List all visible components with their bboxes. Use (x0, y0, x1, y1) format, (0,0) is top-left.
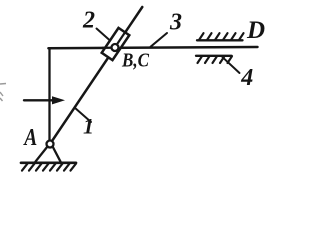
node B,C pin circle (112, 44, 119, 51)
svg-text:4: 4 (240, 65, 253, 91)
leader line to label 3 (151, 33, 168, 47)
wire rod segment inside slider (103, 46, 116, 49)
leader line to label 4 (223, 57, 240, 73)
svg-text:2: 2 (82, 8, 95, 34)
ground hatching at A (22, 164, 76, 171)
svg-text:1: 1 (83, 114, 94, 139)
svg-text:B,C: B,C (121, 50, 149, 72)
scan artifact marks on left edge (0, 84, 6, 102)
pin circle at A (47, 141, 54, 148)
guide D upper hatching (199, 33, 244, 40)
leader line to label 2 (97, 29, 111, 41)
wire vertical frame line from corner down to pivot A (48, 49, 50, 141)
svg-text:A: A (23, 125, 38, 151)
slider block 2 (102, 28, 130, 60)
svg-text:3: 3 (169, 10, 182, 36)
arrow force input (24, 99, 54, 101)
leader line to label 1 (75, 108, 92, 123)
link 1 crank from A through B to top (50, 7, 142, 144)
guide D upper wall line (197, 39, 243, 41)
link 3 horizontal rod (48, 47, 257, 48)
guide wall 4 lower hatching (198, 56, 233, 63)
svg-text:D: D (246, 17, 265, 44)
guide wall 4 lower line (196, 55, 232, 57)
support triangle at A (35, 147, 60, 162)
ground line at A (21, 161, 76, 164)
wire link segment inside slider above pin (116, 32, 126, 46)
